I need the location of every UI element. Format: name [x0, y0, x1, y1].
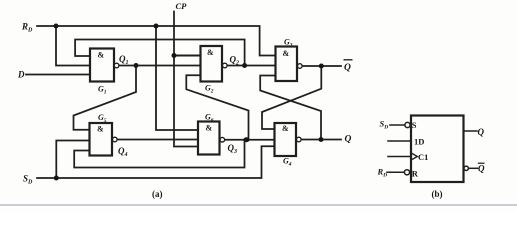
wire Q-bar branch diagonal down to G4 top input [262, 66, 321, 129]
wire S_D horizontal rail up to G4 bottom input [37, 146, 275, 178]
wire feedback from Q2 node up and over to G1 top input [75, 40, 245, 66]
svg-text:Q: Q [345, 135, 352, 145]
wire R_D branch down to G1 middle input [56, 26, 90, 66]
page scan artifact line at bottom [0, 204, 517, 206]
pin Q-bar bubble [464, 166, 468, 170]
junction node Q [319, 137, 324, 142]
wire G3 bottom input loop diagonal from Q node [260, 76, 321, 140]
junction node on R_D rail at x=156 [154, 24, 159, 29]
nand gate G2 body [201, 46, 223, 82]
nand gate G5 body [90, 123, 113, 156]
nand gate G5 output bubble [113, 137, 118, 142]
wire Q1 branch diagonal down to G5 top input [74, 66, 137, 130]
junction node Q2 [242, 63, 247, 68]
svg-text:G2: G2 [205, 84, 214, 95]
pin R bubble [404, 170, 409, 175]
nand gate G1 output bubble [114, 63, 119, 68]
wire Q1 output to G2 middle input [119, 65, 201, 67]
svg-text:&: & [98, 51, 105, 60]
wire G5 bottom input loop from Q3 node [74, 140, 244, 168]
wire CP branch to G2 top input [174, 54, 201, 56]
nand gate G6 output bubble [220, 137, 225, 142]
svg-text:&: & [97, 125, 104, 134]
pin S input wire [390, 124, 405, 126]
svg-text:C1: C1 [418, 152, 428, 162]
nand gate G4 output bubble [297, 137, 302, 142]
nand gate G2 output bubble [223, 63, 228, 68]
svg-text:Q1: Q1 [119, 54, 129, 66]
junction node Q3 [244, 137, 250, 142]
flip-flop symbol U1 body [387, 116, 478, 183]
svg-text:S: S [412, 120, 417, 130]
junction node on R_D rail at x=56 [54, 24, 59, 29]
svg-text:Q: Q [478, 127, 485, 137]
pin C1 dynamic triangle [411, 153, 417, 160]
pin Q-bar output wire [469, 167, 478, 169]
wire Q4 output of G5 to G6 middle input [117, 139, 198, 141]
svg-text:&: & [283, 49, 290, 58]
wire D input to G1 bottom input [26, 74, 90, 76]
wire Q-bar output of G3 [302, 65, 341, 67]
junction node CP to G2 [172, 53, 177, 58]
svg-text:Q4: Q4 [118, 146, 128, 158]
svg-text:Q3: Q3 [228, 143, 238, 155]
wire CP vertical down to G6 bottom input [174, 12, 198, 147]
pin S bubble [405, 122, 410, 127]
nand gate G3 body [276, 47, 298, 82]
wire R_D branch down to G6 top input [156, 26, 198, 130]
svg-text:Q: Q [344, 63, 351, 73]
pin C1 input wire [388, 156, 411, 158]
svg-text:D: D [17, 70, 25, 80]
junction node Q1 [134, 63, 139, 68]
wire Q output of G4 [301, 139, 341, 141]
pin R input wire [387, 171, 405, 173]
svg-text:CP: CP [176, 1, 188, 11]
wire Q2 output to G3 middle input [227, 65, 276, 67]
junction node Q-bar [319, 64, 324, 69]
wire S_D branch up to G5 middle input [56, 141, 89, 179]
svg-text:&: & [206, 124, 213, 133]
nand gate G1 body [90, 49, 114, 82]
wire G2 bottom input loop diagonal from Q3 node [186, 75, 248, 139]
nand gate G3 output bubble [298, 64, 303, 69]
svg-text:RD: RD [21, 22, 33, 34]
svg-text:Q: Q [478, 164, 485, 174]
nand gate G4 body [275, 123, 297, 156]
svg-text:G4: G4 [283, 157, 292, 168]
pin Q output wire [464, 130, 478, 132]
svg-text:SD: SD [380, 119, 389, 131]
svg-text:RD: RD [377, 167, 388, 179]
svg-text:&: & [207, 48, 214, 57]
svg-text:G1: G1 [98, 85, 107, 96]
svg-text:1D: 1D [414, 137, 424, 147]
pin 1D input wire [388, 140, 411, 142]
nand gate G6 body [198, 122, 220, 155]
svg-text:(b): (b) [432, 189, 443, 199]
wire Q3 output of G6 to G4 middle input [225, 139, 275, 141]
wire R_D horizontal rail to G3 top input [37, 26, 276, 56]
svg-text:SD: SD [23, 174, 33, 186]
svg-text:&: & [282, 124, 289, 133]
svg-text:R: R [412, 168, 419, 178]
junction node S_D rail [54, 176, 59, 181]
svg-text:(a): (a) [152, 189, 163, 199]
